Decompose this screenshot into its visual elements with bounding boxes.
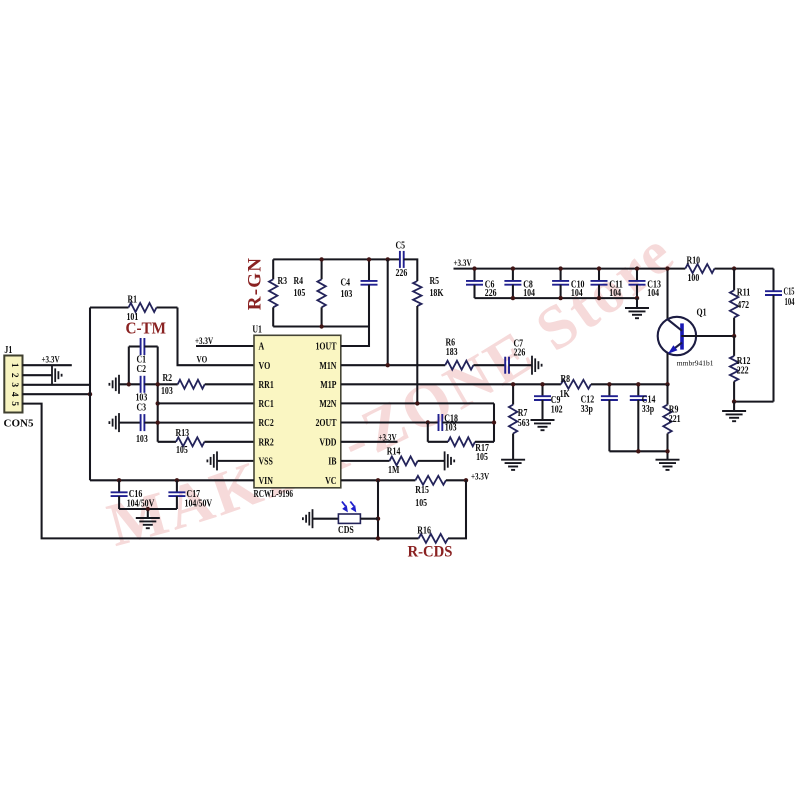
svg-text:RR1: RR1 <box>259 380 274 391</box>
svg-text:+3.3V: +3.3V <box>42 356 60 366</box>
svg-text:5: 5 <box>9 401 19 406</box>
svg-text:3: 3 <box>9 382 19 387</box>
node CDS junction <box>376 517 380 521</box>
wire rail to C15 <box>715 268 774 270</box>
svg-text:18K: 18K <box>430 288 445 299</box>
svg-text:183: 183 <box>446 347 458 358</box>
node gnd tap <box>146 507 150 511</box>
resistor R8 <box>560 374 591 400</box>
resistor R11 <box>730 269 751 336</box>
ground (C16/C17) <box>136 518 160 528</box>
svg-text:1K: 1K <box>560 389 571 400</box>
node C11 top <box>597 266 601 270</box>
resistor R5 <box>413 276 444 403</box>
wire Q1 base <box>681 335 734 337</box>
node collector rail <box>665 266 669 270</box>
node C9 top <box>540 382 544 386</box>
svg-text:104/50V: 104/50V <box>127 498 155 509</box>
svg-text:2: 2 <box>9 373 19 378</box>
ground (C2) <box>109 375 119 394</box>
wire +3.3V drop <box>448 480 466 538</box>
wire +3.3V rail <box>454 268 686 270</box>
wire C1 left drop <box>128 347 130 385</box>
net +3.3V (A pin) <box>195 337 213 347</box>
connector J1 (CON5) <box>4 345 34 430</box>
svg-text:U1: U1 <box>252 325 262 336</box>
node C4 top <box>367 257 371 261</box>
svg-text:RR2: RR2 <box>259 438 274 449</box>
svg-text:C4: C4 <box>341 278 351 289</box>
wire C18 right <box>442 421 494 423</box>
node bottom rail <box>635 296 639 300</box>
capacitor C14 <box>630 384 656 451</box>
wire J1 pin4 <box>22 393 90 395</box>
node bottom rail <box>511 296 515 300</box>
svg-text:33p: 33p <box>642 404 654 415</box>
svg-text:105: 105 <box>415 498 427 509</box>
svg-text:221: 221 <box>669 414 681 425</box>
node Q1 base <box>732 334 736 338</box>
wire RR1 <box>205 383 254 385</box>
wire R-GN top rail <box>273 258 400 260</box>
wire R-GN bottom rail <box>273 325 369 327</box>
resistor R9 <box>663 384 680 459</box>
node C18 right <box>492 420 496 424</box>
svg-text:33p: 33p <box>581 404 593 415</box>
wire VC-CDS drop <box>377 480 379 538</box>
node R11 top <box>732 266 736 270</box>
transistor Q1 <box>658 307 714 368</box>
node R4 bottom <box>319 324 323 328</box>
svg-text:105: 105 <box>294 288 306 299</box>
ground (R7) <box>501 460 525 470</box>
capacitor C4 <box>341 259 378 326</box>
node R7 top <box>511 382 515 386</box>
resistor R15 <box>415 476 446 509</box>
ground (CDS) <box>303 509 339 528</box>
net +3.3V (J1 pin1) <box>42 356 60 366</box>
wire VDD <box>341 441 398 443</box>
node +3.3V (R15) <box>464 478 468 482</box>
node C3 right <box>156 420 160 424</box>
wire VC <box>341 479 415 481</box>
capacitor C18 <box>439 413 458 433</box>
svg-text:+3.3V: +3.3V <box>471 472 489 482</box>
resistor R17 <box>428 423 494 464</box>
resistor R4 <box>294 259 326 326</box>
svg-text:CON5: CON5 <box>4 419 34 430</box>
wire C16/C17 bottom <box>119 509 177 518</box>
capacitor C1 <box>129 338 158 366</box>
svg-text:105: 105 <box>176 445 188 456</box>
wire R8-emitter <box>591 383 668 385</box>
capacitor C11 <box>591 269 623 299</box>
svg-text:R13: R13 <box>176 428 190 439</box>
svg-text:R8: R8 <box>561 374 571 385</box>
svg-text:105: 105 <box>476 452 488 463</box>
ground (C7) <box>532 356 542 375</box>
node VC tap <box>376 478 380 482</box>
node RC1 tap <box>156 401 160 405</box>
net +3.3V (R15) <box>471 472 489 482</box>
svg-text:104: 104 <box>647 288 659 299</box>
wire M2N right drop <box>493 403 495 441</box>
wire cap bottom rail <box>475 297 638 299</box>
watermark <box>101 218 688 560</box>
resistor R2 <box>161 373 205 397</box>
net +3.3V (VDD) <box>379 433 397 443</box>
capacitor C2 <box>119 364 178 404</box>
net +3.3V (top rail) <box>454 259 472 269</box>
svg-text:M1P: M1P <box>320 380 337 391</box>
node C6 top <box>472 266 476 270</box>
svg-text:C5: C5 <box>396 241 406 252</box>
node bottom wire <box>376 536 380 540</box>
wire J1 pin3 <box>22 384 90 386</box>
svg-text:+3.3V: +3.3V <box>379 433 397 443</box>
wire J1 pin2 <box>22 374 52 376</box>
svg-text:C3: C3 <box>137 402 147 413</box>
photoresistor CDS <box>338 502 378 536</box>
svg-text:R3: R3 <box>278 276 288 287</box>
capacitor C15 <box>765 269 795 402</box>
node C1/C2 right <box>156 382 160 386</box>
ground (R9) <box>656 460 680 470</box>
resistor R7 <box>509 384 530 459</box>
svg-text:R2: R2 <box>163 373 173 384</box>
capacitor C6 <box>466 269 497 299</box>
ground (R14) <box>445 451 455 470</box>
node R5 bottom <box>415 401 419 405</box>
svg-text:226: 226 <box>396 268 408 279</box>
svg-text:C2: C2 <box>137 364 147 375</box>
svg-text:RC1: RC1 <box>259 399 274 410</box>
svg-text:104: 104 <box>785 297 795 308</box>
wire M2N <box>341 402 494 404</box>
svg-text:103: 103 <box>341 289 353 300</box>
ground (J1 pin2) <box>52 366 62 385</box>
node C14 bottom <box>636 449 640 453</box>
wire M1N <box>341 364 445 366</box>
ground (C9) <box>531 420 555 430</box>
svg-text:R-CDS: R-CDS <box>408 544 453 561</box>
resistor R1 <box>90 295 178 324</box>
wire J1 pin1 <box>22 364 71 366</box>
wire collector drop <box>666 269 668 321</box>
svg-text:472: 472 <box>737 300 749 311</box>
capacitor C12 <box>581 384 618 451</box>
wire C1 right drop <box>157 347 159 442</box>
svg-text:RCWL-9196: RCWL-9196 <box>254 489 294 500</box>
svg-text:C-TM: C-TM <box>126 319 167 338</box>
resistor R14 <box>387 446 418 476</box>
node C5 branch <box>386 257 390 261</box>
svg-text:4: 4 <box>9 392 19 397</box>
capacitor C9 <box>534 384 563 419</box>
node R9/C-rail <box>665 449 669 453</box>
svg-text:1M: 1M <box>388 465 399 476</box>
node bottom rail <box>597 296 601 300</box>
node C8 top <box>511 266 515 270</box>
capacitor C7 <box>505 339 525 374</box>
capacitor C17 <box>168 480 212 509</box>
capacitor C5 <box>396 241 408 280</box>
svg-text:1: 1 <box>9 363 19 368</box>
resistor R12 <box>730 336 751 402</box>
node C16 top <box>117 478 121 482</box>
wire VO net <box>178 308 255 366</box>
svg-text:VIN: VIN <box>259 476 274 487</box>
label C-TM <box>126 319 167 338</box>
svg-text:M1N: M1N <box>319 361 336 372</box>
svg-text:103: 103 <box>161 386 173 397</box>
svg-text:563: 563 <box>518 418 530 429</box>
label R-GN <box>245 257 266 310</box>
wire M1N drop <box>387 259 389 365</box>
node C10 top <box>558 266 562 270</box>
capacitor C10 <box>552 269 584 299</box>
wire J1 pin5 <box>22 404 418 539</box>
svg-text:1OUT: 1OUT <box>316 342 337 353</box>
svg-text:VC: VC <box>325 476 336 487</box>
wire R12/C15 bottom <box>734 401 773 403</box>
node bottom rail <box>558 296 562 300</box>
node emitter/M1P <box>665 382 669 386</box>
wire C12/C14 bottom <box>609 450 667 452</box>
svg-text:R15: R15 <box>415 485 429 496</box>
svg-text:R-GN: R-GN <box>245 257 266 310</box>
svg-text:104/50V: 104/50V <box>185 498 213 509</box>
svg-text:226: 226 <box>514 348 526 359</box>
svg-text:C15: C15 <box>784 286 795 297</box>
op-amp U1 RCWL-9196 IC <box>252 325 340 500</box>
svg-text:M2N: M2N <box>319 399 336 410</box>
svg-text:VDD: VDD <box>319 438 336 449</box>
wire IB <box>341 460 390 462</box>
svg-text:103: 103 <box>445 423 457 434</box>
svg-text:R1: R1 <box>128 295 138 306</box>
wire C7-gnd <box>509 364 532 366</box>
svg-text:VO: VO <box>259 361 271 372</box>
node M1N drop <box>386 363 390 367</box>
capacitor C8 <box>504 269 535 299</box>
capacitor C13 <box>629 269 661 299</box>
ground (C13) <box>625 298 649 318</box>
resistor R16 <box>417 526 448 543</box>
ground (C3) <box>109 413 119 432</box>
svg-text:R4: R4 <box>294 276 304 287</box>
wire left vertical rail <box>89 308 91 481</box>
node R12 bottom <box>732 399 736 403</box>
wire R14-gnd <box>418 460 445 462</box>
svg-text:IB: IB <box>328 457 336 468</box>
svg-text:J1: J1 <box>4 345 12 356</box>
svg-text:RC2: RC2 <box>259 418 274 429</box>
svg-text:VSS: VSS <box>259 457 274 468</box>
svg-text:Q1: Q1 <box>697 307 707 319</box>
node C13 top <box>635 266 639 270</box>
svg-text:R11: R11 <box>737 287 751 298</box>
capacitor C3 <box>119 402 254 445</box>
resistor R6 <box>445 338 473 370</box>
svg-text:VO: VO <box>197 356 208 366</box>
svg-text:CDS: CDS <box>338 525 354 536</box>
svg-text:103: 103 <box>136 434 148 445</box>
svg-text:A: A <box>259 342 265 353</box>
node C17 top <box>175 478 179 482</box>
svg-text:102: 102 <box>551 405 563 416</box>
node C18 left <box>426 420 430 424</box>
wire R6-C7 <box>473 364 505 366</box>
svg-text:2OUT: 2OUT <box>316 418 337 429</box>
node pin4/left-rail <box>88 392 92 396</box>
svg-text:R14: R14 <box>387 446 401 457</box>
node C12 top <box>607 382 611 386</box>
ground (R12) <box>722 402 746 422</box>
wire emitter drop <box>666 353 668 384</box>
wire A pin <box>196 345 254 347</box>
ground (VSS) <box>207 451 254 470</box>
node C14 top <box>636 382 640 386</box>
svg-text:222: 222 <box>737 366 749 377</box>
resistor R13 <box>158 428 254 456</box>
resistor R3 <box>269 259 287 326</box>
wire 2OUT <box>341 421 439 423</box>
svg-text:R5: R5 <box>430 276 440 287</box>
wire M1P <box>341 383 561 385</box>
wire RC1 <box>158 402 254 404</box>
wire R15 right <box>446 479 466 481</box>
label R-CDS <box>408 544 453 561</box>
node R4 top <box>319 257 323 261</box>
node C2 left <box>127 382 131 386</box>
net label VO <box>197 356 208 366</box>
resistor R10 <box>685 255 714 284</box>
svg-text:R10: R10 <box>687 255 701 266</box>
wire 1OUT <box>341 327 369 347</box>
svg-text:R16: R16 <box>417 526 431 537</box>
svg-text:100: 100 <box>688 273 700 284</box>
svg-text:mmbr941b1: mmbr941b1 <box>677 358 714 367</box>
wire C5 to R5 <box>404 259 418 281</box>
wire VIN rail <box>90 479 254 481</box>
capacitor C16 <box>111 480 155 509</box>
